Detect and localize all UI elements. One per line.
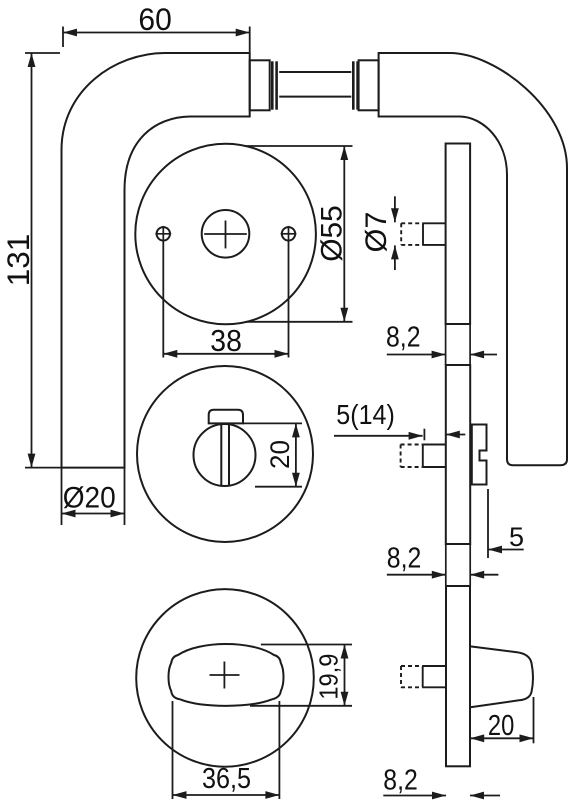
svg-text:Ø20: Ø20 <box>63 482 116 515</box>
svg-text:19,9: 19,9 <box>314 654 344 700</box>
svg-text:20: 20 <box>265 440 295 469</box>
svg-text:36,5: 36,5 <box>202 763 251 795</box>
svg-text:8,2: 8,2 <box>386 322 421 354</box>
svg-text:60: 60 <box>138 1 171 37</box>
svg-text:Ø7: Ø7 <box>360 212 393 253</box>
svg-text:8,2: 8,2 <box>383 765 418 797</box>
svg-text:38: 38 <box>210 324 242 358</box>
svg-text:20: 20 <box>488 710 514 742</box>
svg-text:8,2: 8,2 <box>387 543 422 575</box>
svg-text:Ø55: Ø55 <box>316 205 349 262</box>
svg-text:5: 5 <box>509 522 524 552</box>
svg-text:131: 131 <box>0 234 36 287</box>
svg-text:5(14): 5(14) <box>336 399 395 430</box>
